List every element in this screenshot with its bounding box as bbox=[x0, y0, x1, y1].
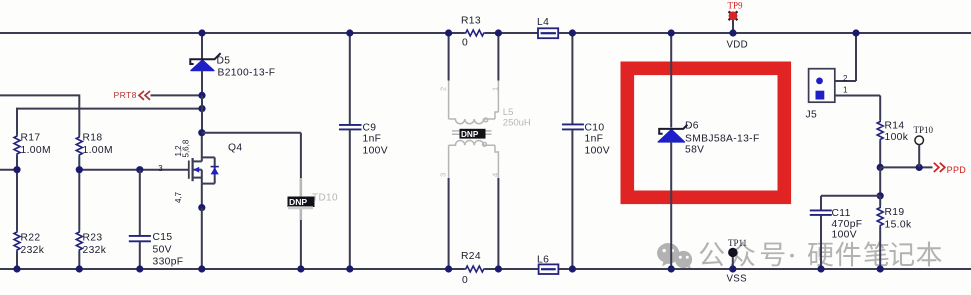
testpoint TP10 bbox=[914, 125, 934, 167]
wire PRT8 net lower (R17 to D5 column) bbox=[17, 108, 202, 110]
label DNP transformer bbox=[460, 129, 486, 139]
svg-text:DNP: DNP bbox=[461, 130, 479, 139]
svg-text:1.00M: 1.00M bbox=[21, 145, 51, 156]
svg-text:D5: D5 bbox=[217, 56, 231, 67]
svg-text:R24: R24 bbox=[461, 251, 481, 262]
svg-text:4,7: 4,7 bbox=[174, 191, 183, 203]
capacitor C10 bbox=[562, 33, 610, 269]
svg-text:R19: R19 bbox=[885, 207, 905, 218]
svg-text:1: 1 bbox=[843, 86, 848, 95]
capacitor C11 bbox=[810, 196, 880, 269]
watermark wechat logo bbox=[657, 243, 692, 269]
svg-text:TP10: TP10 bbox=[914, 125, 934, 135]
resistor R14 bbox=[877, 120, 909, 143]
svg-text:3: 3 bbox=[439, 173, 448, 177]
label PRT8 off-page bbox=[114, 90, 151, 100]
node Q4 drain junction bbox=[198, 129, 205, 136]
svg-text:15.0k: 15.0k bbox=[885, 220, 912, 231]
wire transformer pins to buses bbox=[448, 33, 450, 81]
svg-text:100V: 100V bbox=[832, 229, 857, 240]
wire PPD net bbox=[880, 166, 932, 168]
svg-text:470pF: 470pF bbox=[832, 219, 863, 230]
node bottom bus junctions bbox=[13, 265, 20, 272]
label PPD off-page bbox=[934, 163, 967, 175]
capacitor C9 bbox=[339, 33, 388, 269]
resistor R23 bbox=[76, 231, 106, 257]
svg-text:PRT8: PRT8 bbox=[114, 90, 137, 100]
node C11/R19 junction bbox=[877, 192, 884, 199]
svg-text:100V: 100V bbox=[585, 146, 610, 157]
svg-text:5,6,8: 5,6,8 bbox=[182, 139, 191, 157]
svg-text:1: 1 bbox=[491, 87, 500, 91]
connector J5 bbox=[806, 29, 881, 120]
svg-text:R23: R23 bbox=[83, 232, 103, 243]
wire top bus VDD bbox=[0, 32, 465, 34]
svg-text:100V: 100V bbox=[363, 146, 388, 157]
svg-text:1.00M: 1.00M bbox=[83, 145, 113, 156]
svg-text:3: 3 bbox=[158, 164, 163, 173]
svg-text:R14: R14 bbox=[885, 121, 905, 132]
svg-text:VDD: VDD bbox=[727, 40, 749, 51]
svg-text:TD10: TD10 bbox=[312, 193, 338, 204]
node PRT8 junctions on D5 column bbox=[198, 92, 205, 99]
svg-text:4: 4 bbox=[491, 173, 500, 177]
inductor L4 bbox=[537, 17, 558, 38]
svg-text:PPD: PPD bbox=[947, 165, 967, 175]
transistor Q4 nmos bbox=[158, 133, 242, 208]
svg-text:B2100-13-F: B2100-13-F bbox=[218, 68, 276, 79]
resistor R13 bbox=[461, 16, 485, 49]
wire PRT8 label to D5 column bbox=[151, 94, 203, 96]
resistor R22 bbox=[14, 231, 45, 257]
svg-text:100k: 100k bbox=[885, 132, 909, 143]
svg-text:0: 0 bbox=[462, 38, 468, 49]
svg-text:Q4: Q4 bbox=[228, 143, 242, 154]
svg-text:1nF: 1nF bbox=[363, 134, 382, 145]
capacitor C15 bbox=[129, 170, 184, 269]
wire Q4 drain to TD10 bbox=[202, 132, 301, 134]
watermark text bbox=[700, 241, 942, 266]
wire gate node R18 to Q4 gate bbox=[78, 157, 80, 231]
resistor R18 bbox=[76, 133, 113, 157]
svg-text:L6: L6 bbox=[537, 255, 549, 266]
wire PRT8 net upper (to R18) bbox=[0, 94, 79, 96]
svg-text:232k: 232k bbox=[83, 245, 107, 256]
svg-text:C15: C15 bbox=[153, 232, 173, 243]
inductor L6 bbox=[537, 255, 558, 275]
svg-text:232k: 232k bbox=[21, 245, 45, 256]
node R14 bottom junction bbox=[877, 164, 884, 171]
svg-text:1nF: 1nF bbox=[585, 134, 604, 145]
svg-text:TP11: TP11 bbox=[728, 238, 747, 248]
svg-text:D6: D6 bbox=[685, 121, 699, 132]
diode D6 TVS bbox=[658, 33, 760, 269]
svg-text:SMBJ58A-13-F: SMBJ58A-13-F bbox=[685, 133, 760, 144]
wire Q4 source to bottom bus bbox=[201, 208, 203, 269]
svg-text:DNP: DNP bbox=[289, 197, 307, 207]
svg-text:2: 2 bbox=[843, 74, 848, 83]
svg-text:L4: L4 bbox=[537, 17, 549, 28]
svg-text:R18: R18 bbox=[83, 133, 103, 144]
svg-text:VSS: VSS bbox=[727, 274, 748, 285]
resistor R19 bbox=[877, 196, 912, 269]
svg-text:L5: L5 bbox=[503, 107, 514, 118]
svg-text:TP9: TP9 bbox=[728, 1, 744, 11]
svg-text:58V: 58V bbox=[685, 145, 704, 156]
svg-text:C10: C10 bbox=[585, 122, 605, 133]
wire R17/R22 node stub bbox=[0, 169, 17, 171]
svg-text:50V: 50V bbox=[153, 245, 172, 256]
svg-text:C9: C9 bbox=[363, 122, 377, 133]
svg-text:C11: C11 bbox=[832, 208, 851, 219]
testpad TD10 (DNP) bbox=[288, 178, 338, 220]
svg-text:250uH: 250uH bbox=[503, 118, 531, 129]
svg-text:J5: J5 bbox=[806, 110, 818, 121]
svg-text:330pF: 330pF bbox=[153, 257, 184, 268]
testpoint TP9 bbox=[727, 1, 749, 51]
testpoint TP11 bbox=[727, 238, 748, 285]
resistor R24 bbox=[461, 251, 485, 286]
svg-text:R22: R22 bbox=[21, 232, 41, 243]
svg-text:2: 2 bbox=[439, 87, 448, 91]
svg-text:0: 0 bbox=[462, 275, 468, 286]
highlight box (red) bbox=[627, 68, 784, 197]
transformer L5 (DNP) bbox=[449, 80, 499, 179]
diode D5 schottky bbox=[190, 33, 275, 95]
resistor R17 bbox=[14, 133, 51, 157]
node Q4 source junction bbox=[198, 204, 205, 211]
svg-text:R13: R13 bbox=[461, 16, 481, 27]
wire bottom bus VSS bbox=[0, 268, 465, 270]
node top bus junctions bbox=[198, 29, 205, 36]
svg-text:R17: R17 bbox=[21, 133, 41, 144]
